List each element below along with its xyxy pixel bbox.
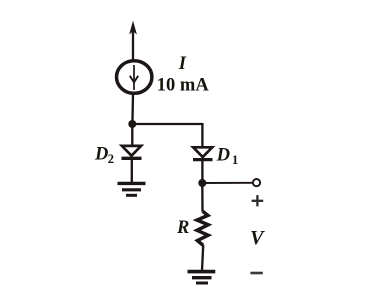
node junction dot xyxy=(128,120,136,128)
resistor R zigzag xyxy=(197,211,208,245)
wire resistor to ground xyxy=(202,245,203,270)
top arrow shaft xyxy=(132,30,134,60)
label plus xyxy=(252,195,264,206)
ground under D2 xyxy=(118,183,146,195)
diode D2 cathode bar xyxy=(122,157,142,160)
wire node to terminal xyxy=(202,182,253,184)
svg-text:10 mA: 10 mA xyxy=(157,75,210,95)
svg-text:D: D xyxy=(216,145,230,165)
current source I1 circle xyxy=(117,61,152,94)
ground under R xyxy=(188,272,216,283)
svg-text:V: V xyxy=(250,227,265,249)
wire D2 to ground xyxy=(131,158,133,183)
wire corner down to D1 xyxy=(201,123,203,148)
svg-text:I: I xyxy=(178,54,187,74)
current source arrowhead xyxy=(130,76,138,83)
open terminal xyxy=(253,179,260,186)
diode D1 cathode bar xyxy=(193,158,213,161)
svg-text:D: D xyxy=(94,144,108,164)
wire D1 to output node xyxy=(201,160,203,183)
diode D1 triangle xyxy=(193,147,212,157)
svg-text:R: R xyxy=(176,218,189,238)
label minus xyxy=(250,272,262,275)
output node dot xyxy=(198,179,206,187)
wire junction down to D2 xyxy=(131,124,133,147)
wire node to resistor xyxy=(201,183,204,212)
wire circle to junction xyxy=(131,95,134,124)
svg-text:1: 1 xyxy=(232,153,238,167)
svg-text:2: 2 xyxy=(108,152,114,166)
diode D2 triangle xyxy=(122,146,141,156)
wire junction to right corner xyxy=(132,123,202,125)
current source arrow shaft xyxy=(133,65,135,90)
top arrowhead xyxy=(129,21,137,35)
